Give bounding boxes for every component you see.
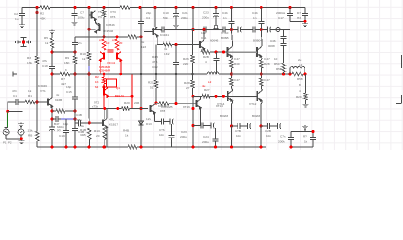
wire VT13 emitter	[106, 127, 108, 147]
ground V2 bottom	[18, 140, 24, 144]
svg-text:VT3: VT3	[110, 10, 116, 14]
junction 117-36	[116, 35, 119, 38]
trimmer red box	[107, 79, 117, 87]
svg-text:R29: R29	[296, 95, 302, 99]
resistor R7	[60, 73, 70, 76]
resistor R10	[88, 52, 91, 60]
junction bottom rail x215.5	[214, 146, 217, 149]
wire y103 gray	[156, 103, 197, 105]
capacitor C12	[223, 27, 225, 33]
svg-text:4TL: 4TL	[109, 118, 115, 122]
wire y29 rail	[152, 29, 290, 31]
svg-text:C4: C4	[146, 16, 150, 20]
wire VT11 c	[199, 96, 201, 99]
wire VT13 collector	[106, 109, 108, 119]
svg-text:2u: 2u	[298, 58, 302, 62]
resistor R34	[282, 63, 285, 72]
junction 141-rail	[140, 146, 143, 149]
transistor VT7	[153, 27, 158, 37]
wire net66	[65, 119, 67, 147]
terminal input	[13, 72, 17, 77]
wire net261 a	[260, 68, 262, 78]
wire VT8 e	[153, 113, 155, 122]
capacitor C33	[238, 123, 240, 129]
resistor R5	[51, 38, 54, 48]
svg-text:C18: C18	[42, 64, 48, 68]
resistor R36	[304, 93, 307, 100]
wire net104 bot2	[104, 127, 106, 147]
svg-text:200Gk: 200Gk	[276, 11, 286, 15]
junction 283-74	[282, 73, 285, 76]
transistor red V9	[99, 52, 104, 62]
capacitor C37	[302, 13, 308, 15]
wire input drop	[7, 102, 9, 111]
junction V2 bottom	[20, 137, 23, 140]
svg-text:K3546: K3546	[106, 23, 115, 27]
wire net261 c	[260, 126, 262, 147]
capacitor C11	[204, 27, 206, 33]
wire net141	[140, 8, 142, 148]
wire y74 C	[219, 73, 290, 75]
resistor R25	[260, 78, 263, 86]
svg-text:R28: R28	[184, 81, 190, 85]
svg-text:1k: 1k	[45, 41, 49, 45]
junction 176-44	[175, 43, 178, 46]
svg-text:C46: C46	[270, 39, 276, 43]
wire net305 top	[304, 8, 306, 22]
ground 305 low	[303, 103, 309, 107]
junction top rail x216	[215, 6, 218, 9]
capacitor C26b	[170, 119, 174, 125]
svg-text:K1B17: K1B17	[109, 123, 118, 127]
wire VT16 e	[231, 58, 232, 60]
resistor R1	[25, 101, 35, 104]
svg-text:1k: 1k	[304, 140, 308, 144]
wire box left	[290, 132, 292, 148]
capacitor C14	[267, 27, 271, 33]
transistor VT11	[197, 99, 202, 109]
wire VT2 base	[95, 22, 99, 25]
wire net305 down2	[305, 100, 307, 103]
junction 156-103	[155, 102, 158, 105]
wire VT14 e2	[231, 104, 233, 126]
svg-text:1n: 1n	[223, 16, 227, 20]
svg-text:C4B: C4B	[76, 113, 82, 117]
svg-text:R3: R3	[27, 56, 31, 60]
junction red 132-96	[131, 95, 134, 98]
wire y21	[290, 20, 305, 22]
junction top rail x89	[88, 6, 91, 9]
svg-text:9T16: 9T16	[183, 105, 190, 109]
svg-text:C4b: C4b	[252, 11, 258, 15]
source V2	[18, 127, 24, 136]
svg-text:4u: 4u	[202, 84, 206, 88]
junction X1 center	[22, 40, 25, 43]
junction 216-52	[215, 51, 218, 54]
junction top rail x155	[154, 6, 157, 9]
wire edge A	[401, 55, 403, 68]
wire red V10 e	[120, 60, 122, 74]
wire box gnd stub	[304, 130, 306, 132]
svg-text:R10: R10	[80, 52, 86, 56]
svg-text:P6: P6	[98, 15, 102, 19]
wire net215 drop	[215, 128, 217, 147]
node stub below rail	[36, 11, 39, 14]
transistor red V10	[117, 52, 122, 62]
wire y119	[52, 118, 75, 120]
svg-text:1k: 1k	[82, 57, 86, 61]
junction 141-108	[140, 107, 143, 110]
transistor VT16	[228, 46, 233, 58]
ground V2 top	[18, 123, 24, 127]
junction 52-111	[51, 110, 54, 113]
junction 204-29	[203, 28, 206, 31]
svg-text:R20: R20	[124, 101, 130, 105]
resistor R24	[260, 60, 263, 68]
resistor R18	[155, 80, 158, 88]
resistor R22	[230, 60, 233, 68]
wire net283	[283, 30, 285, 75]
junction 261-74	[260, 73, 263, 76]
junction 216-96	[215, 95, 218, 98]
wire VT14 c	[231, 88, 233, 90]
junction 156-74	[155, 73, 157, 75]
junction 192-96	[192, 95, 195, 98]
svg-text:R13: R13	[94, 129, 100, 133]
junction 291-147	[290, 146, 293, 149]
wire rowC	[232, 125, 250, 127]
svg-text:R2B: R2B	[203, 55, 209, 59]
svg-text:220: 220	[183, 62, 188, 66]
svg-text:200u: 200u	[202, 140, 209, 144]
svg-text:R21: R21	[148, 81, 154, 85]
wire VT13 base link	[89, 122, 103, 124]
svg-text:60646: 60646	[210, 39, 219, 43]
junction 193-125	[192, 124, 195, 127]
svg-text:P2: P2	[8, 141, 12, 145]
svg-text:R1: R1	[28, 94, 32, 98]
svg-text:C2B: C2B	[265, 129, 271, 133]
capacitor C20 polarized	[49, 127, 55, 130]
wire net89 c	[88, 109, 90, 123]
svg-text:10n: 10n	[159, 133, 164, 137]
svg-text:10n: 10n	[236, 134, 241, 138]
wire VT9 e	[203, 49, 205, 52]
junction 305-74	[304, 73, 307, 76]
svg-text:R28: R28	[264, 62, 270, 66]
capacitor C31	[201, 123, 203, 129]
wire VT14 e	[232, 102, 233, 104]
transistor VT17	[257, 46, 262, 58]
capacitor C12b	[238, 27, 242, 33]
junction 192-74	[191, 73, 193, 75]
svg-text:B02M: B02M	[252, 114, 261, 118]
wire y52	[204, 51, 228, 53]
wire y96 base	[193, 95, 257, 97]
svg-text:D7: D7	[297, 11, 301, 15]
svg-text:xT3x: xT3x	[92, 105, 99, 109]
svg-text:1K: 1K	[95, 80, 99, 84]
svg-text:K: K	[65, 68, 67, 72]
wire net155 stub	[154, 8, 156, 28]
wire y108	[89, 108, 148, 110]
junction 223-52	[222, 51, 225, 54]
junction 121-74	[120, 73, 123, 76]
capacitor C24	[213, 139, 219, 141]
svg-text:47B: 47B	[152, 60, 157, 64]
junction 231-29	[230, 28, 233, 31]
wire C2 drop	[21, 8, 23, 24]
wire sources link	[6, 138, 21, 140]
wire red V9 e	[99, 60, 101, 74]
svg-text:C23: C23	[181, 130, 187, 134]
wire red Q1 e	[103, 96, 105, 109]
svg-text:9T8: 9T8	[160, 109, 166, 113]
wire VT12 c	[261, 88, 262, 90]
capacitor C1	[16, 99, 18, 105]
svg-text:47n: 47n	[12, 89, 17, 93]
svg-text:1n: 1n	[253, 16, 257, 20]
svg-text:640n: 640n	[57, 125, 64, 129]
resistor R3	[36, 56, 39, 64]
svg-text:200u: 200u	[202, 16, 209, 20]
junction 176-74	[175, 73, 177, 75]
junction 104-108	[103, 107, 106, 110]
svg-text:C?B: C?B	[235, 129, 241, 133]
wire box bottom	[291, 146, 313, 148]
svg-text:R26: R26	[183, 57, 189, 61]
junction bottom rail x104	[103, 146, 106, 149]
capacitor C13	[173, 62, 179, 64]
wire net52 lower	[51, 108, 53, 147]
wire net290 top	[289, 8, 291, 22]
inductor L2	[207, 72, 219, 74]
resistor red R14	[103, 77, 106, 84]
junction top rail x231.4	[230, 6, 233, 9]
svg-text:B02M: B02M	[220, 114, 229, 118]
junction bottom rail x261.1	[260, 146, 263, 149]
wire y52 link	[52, 51, 75, 53]
svg-text:4k7: 4k7	[61, 82, 66, 86]
junction 75-52	[74, 51, 77, 54]
svg-text:8: 8	[299, 83, 301, 87]
wire VT2 link	[89, 28, 96, 30]
svg-text:R2: R2	[95, 75, 99, 79]
svg-text:9T6: 9T6	[110, 15, 116, 19]
wire red net132	[131, 74, 133, 109]
junction 52-74	[51, 73, 54, 76]
svg-text:0.27: 0.27	[234, 57, 240, 61]
wire net52 upper	[51, 34, 53, 96]
svg-text:13p: 13p	[66, 85, 71, 89]
svg-text:R40: R40	[234, 62, 240, 66]
wire C4B link	[75, 122, 89, 124]
svg-text:10: 10	[274, 57, 278, 61]
junction top rail x104	[103, 6, 106, 9]
ground elt 216	[213, 25, 219, 29]
junction 75-rail	[74, 146, 77, 149]
ground box	[302, 125, 308, 129]
capacitor C7	[72, 13, 78, 15]
wire net104 bot	[104, 109, 106, 120]
svg-text:L2: L2	[208, 80, 212, 84]
capacitor C38	[281, 36, 287, 38]
inductor L3	[290, 66, 305, 74]
junction 193-29	[192, 28, 195, 31]
junction 176-103	[175, 102, 178, 105]
wire edge C	[396, 103, 402, 105]
wire VT12 e	[261, 102, 262, 104]
svg-text:R50: R50	[274, 62, 280, 66]
junction bottom rail x141	[140, 146, 143, 149]
svg-text:2n: 2n	[78, 41, 82, 45]
svg-text:B06B: B06B	[221, 36, 229, 40]
junction bottom rail x66	[65, 146, 68, 149]
wire VT9 base	[196, 44, 200, 46]
transistor VT8	[151, 104, 156, 114]
svg-text:13k: 13k	[27, 61, 32, 65]
svg-text:4x: 4x	[56, 93, 60, 97]
junction bottom rail x75	[74, 146, 77, 149]
wire net261 up	[260, 8, 262, 30]
svg-text:C21: C21	[182, 11, 188, 15]
svg-text:C7: C7	[80, 11, 84, 15]
wire V5 emitter	[94, 19, 96, 23]
wire net231 up	[230, 8, 232, 30]
wire VT17 e	[260, 58, 263, 60]
wire VT11 e	[199, 108, 201, 126]
wire edge B	[401, 95, 403, 103]
resistor R28h	[159, 102, 169, 105]
wire VT7 e	[156, 35, 158, 45]
capacitor C3	[72, 42, 78, 44]
svg-text:R4B: R4B	[152, 55, 158, 59]
junction 52-rail	[51, 146, 54, 149]
capacitor C41	[310, 137, 316, 139]
svg-text:K3546/B: K3546/B	[161, 105, 173, 109]
wire V1 bottom	[5, 135, 7, 139]
svg-text:1u: 1u	[15, 17, 19, 21]
svg-text:C13: C13	[152, 65, 158, 69]
svg-text:916B: 916B	[55, 98, 62, 102]
junction 52-119	[51, 118, 54, 121]
capacitor C4B	[78, 120, 80, 126]
junction bottom rail x89	[88, 146, 91, 149]
junction red 104-87	[103, 86, 106, 89]
wire V2 bottom	[20, 135, 22, 139]
wire VT7 base	[144, 31, 153, 33]
wire gray base y52	[228, 51, 258, 53]
svg-text:C23: C23	[203, 11, 209, 15]
wire y102	[8, 101, 37, 103]
resistor R31	[128, 146, 137, 149]
svg-text:RB: RB	[28, 134, 32, 138]
svg-text:C?6: C?6	[159, 128, 165, 132]
svg-text:16K: 16K	[64, 61, 70, 65]
resistor R16	[128, 35, 137, 38]
wire y111	[52, 110, 75, 112]
wire C7 stub	[74, 16, 76, 21]
resistor R30	[56, 110, 65, 113]
wire net231 a	[230, 68, 232, 78]
ground C21	[173, 24, 179, 28]
resistor R32	[88, 128, 91, 140]
svg-text:12v: 12v	[146, 117, 151, 121]
wire input green	[7, 111, 9, 127]
svg-text:0.27: 0.27	[264, 57, 270, 61]
svg-text:1k3: 1k3	[141, 45, 146, 49]
wire net75	[74, 37, 76, 147]
svg-text:xK3546: xK3546	[103, 29, 114, 33]
junction 75-111	[74, 110, 77, 113]
wire net193 low	[192, 96, 194, 147]
ground R5 top	[49, 30, 55, 34]
wire top rail B	[50, 7, 120, 9]
svg-text:64: 64	[95, 85, 99, 89]
wire blue net89	[88, 66, 90, 71]
svg-text:45K: 45K	[40, 17, 46, 21]
capacitor red C	[108, 50, 114, 52]
wire VT1 emitter	[51, 106, 53, 108]
resistor R29	[122, 107, 130, 110]
junction 193-108	[192, 107, 195, 110]
svg-text:10: 10	[106, 41, 110, 45]
wire V5 b2	[89, 14, 92, 16]
svg-text:VT1: VT1	[40, 89, 46, 93]
wire 216 drop	[216, 52, 218, 74]
transistor V5	[92, 11, 97, 21]
junction top rail x290	[289, 6, 292, 9]
wire y36	[75, 36, 141, 38]
resistor R6	[120, 6, 130, 9]
svg-text:13k: 13k	[28, 129, 33, 133]
junction top rail x176	[175, 6, 178, 9]
svg-text:24p: 24p	[146, 11, 151, 15]
junction 104-rail	[103, 146, 106, 149]
junction 305-21	[304, 20, 307, 23]
svg-text:206: 206	[134, 101, 139, 105]
transistor VT9	[200, 40, 205, 50]
wire top rail C	[130, 7, 305, 9]
junction 89-rail	[88, 146, 91, 149]
svg-text:R?: R?	[303, 135, 307, 139]
junction 75-74	[74, 73, 77, 76]
wire net305 down	[305, 74, 307, 93]
junction 75-119	[74, 118, 77, 121]
svg-text:0068: 0068	[268, 44, 275, 48]
wire box top	[291, 131, 313, 133]
connector X1	[16, 38, 31, 47]
svg-text:0.27: 0.27	[234, 78, 240, 82]
wire C23 drop	[215, 8, 217, 26]
junction 104-36	[103, 35, 106, 38]
source V1	[3, 128, 9, 136]
capacitor C35	[267, 123, 269, 129]
wire rowB	[193, 125, 214, 127]
svg-text:1k: 1k	[125, 134, 129, 138]
resistor R20	[191, 80, 194, 88]
svg-text:0.27: 0.27	[264, 78, 270, 82]
resistor R11	[103, 10, 106, 17]
svg-text:51: 51	[150, 86, 154, 90]
wire VT9 c	[203, 30, 205, 41]
junction 290-74	[289, 73, 292, 76]
svg-text:20: 20	[119, 41, 123, 45]
capacitor C26a	[161, 119, 163, 125]
transistor VT12	[257, 90, 262, 102]
svg-text:C7x: C7x	[280, 135, 286, 139]
wire net89 d	[88, 140, 90, 148]
